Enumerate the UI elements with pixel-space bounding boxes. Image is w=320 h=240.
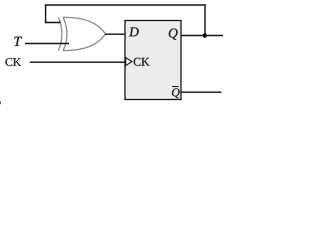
- pin label Q: [169, 28, 178, 39]
- wire feedback stub to xor upper input: [45, 22, 61, 24]
- wire CK input: [30, 61, 125, 63]
- d flip-flop U2 box: [125, 21, 181, 100]
- wire feedback top horizontal: [45, 4, 206, 6]
- pin label CK: [134, 58, 141, 66]
- overline of Qbar: [172, 86, 179, 88]
- clipped glyph at left edge: [0, 101, 2, 105]
- junction dot on Q feedback: [203, 33, 208, 38]
- pin label D: [129, 27, 139, 36]
- wire feedback left vertical: [45, 4, 47, 23]
- pin label Qbar: [172, 88, 180, 98]
- xor gate U1 body: [63, 17, 105, 50]
- clock edge triangle: [126, 58, 132, 66]
- wire Qbar output: [181, 91, 222, 93]
- label T: [14, 37, 22, 46]
- label CK (clock input): [5, 58, 12, 66]
- wire feedback right vertical: [204, 4, 206, 35]
- wire T input: [25, 43, 69, 45]
- xor gate U1 input arc: [58, 17, 61, 50]
- wire Q output: [181, 35, 223, 37]
- wire xor output to D input: [105, 33, 125, 35]
